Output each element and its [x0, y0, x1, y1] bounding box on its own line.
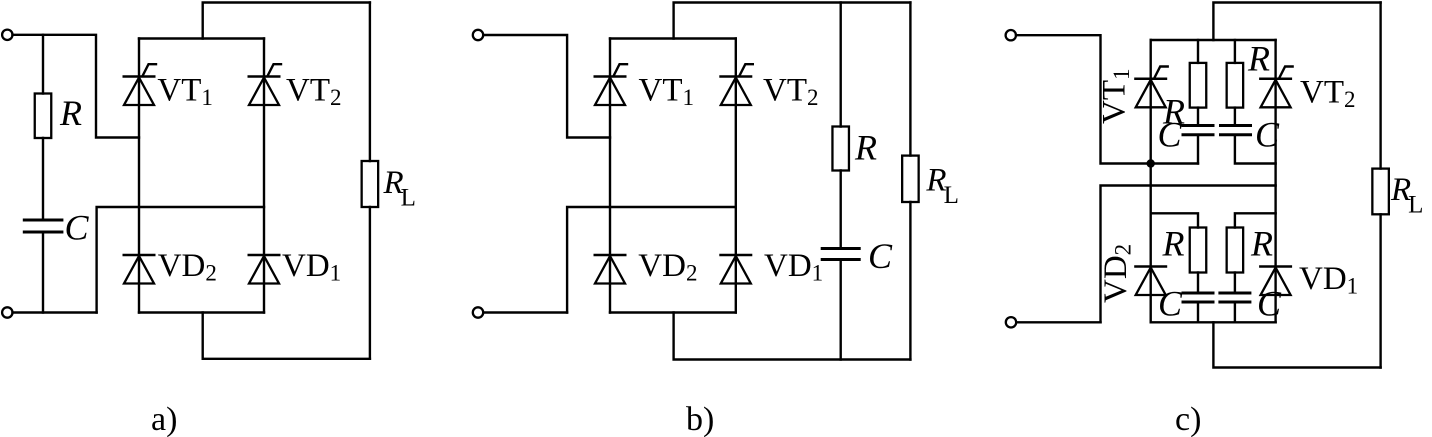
wire bottom output rail c: [1213, 322, 1380, 367]
wire input1 b: [483, 35, 610, 138]
svg-text:VD1: VD1: [1299, 261, 1358, 299]
wire RL top lead b: [909, 3, 911, 156]
wire input2 c bottom: [1016, 321, 1100, 323]
diode VD1 (a) cathode bar: [248, 254, 281, 257]
diode VD2 (a) triangle: [124, 256, 154, 284]
wire C bottom lead b: [840, 260, 842, 360]
wire RL bottom lead c: [1379, 214, 1381, 367]
svg-text:C: C: [1158, 115, 1183, 155]
wire input2 a riser to right branch midpoint: [97, 207, 264, 313]
wire top output rail b: [674, 3, 911, 39]
wire R4-C4 stub c: [1234, 273, 1236, 294]
wire RL top lead a: [369, 3, 371, 162]
wire RL top lead c: [1379, 3, 1381, 169]
diode VD2 (b) triangle: [595, 256, 625, 284]
terminal b-top: [473, 30, 483, 40]
wire input2 c riser to right column: [1101, 186, 1276, 323]
diode VD1 (b) cathode bar: [719, 254, 752, 257]
thyristor VT2 (a) triangle: [249, 78, 279, 106]
diode VD2 (c) triangle: [1136, 268, 1166, 296]
wire bottom box bottom rail c: [1151, 321, 1276, 323]
thyristor VT1 (b) triangle: [595, 78, 625, 106]
thyristor VT1 (a) gate lead: [143, 64, 157, 76]
resistor R (b) body: [832, 127, 849, 171]
wire left column c (VT1/VD2): [1149, 40, 1151, 322]
wire C2 bottom to VT2 anode c: [1235, 135, 1276, 164]
diode VD1 (c) triangle: [1261, 268, 1291, 296]
svg-text:R: R: [1250, 224, 1273, 264]
svg-text:VD2: VD2: [158, 248, 217, 286]
wire top box top rail c: [1151, 39, 1276, 41]
wire snubber1 top stub c: [1197, 40, 1199, 63]
wire R1-C1 stub c: [1197, 108, 1199, 126]
resistor R snubber4 (c) body: [1227, 228, 1244, 273]
wire snubber3 top stub c: [1151, 213, 1198, 227]
wire bridge top rail b: [610, 37, 736, 39]
thyristor VT2 (a) cathode bar: [248, 75, 281, 78]
diode VD2 (a) cathode bar: [123, 254, 156, 257]
capacitor C (b) plates: [821, 249, 861, 260]
svg-text:RL: RL: [925, 163, 958, 210]
wire bottom output rail a: [203, 313, 370, 359]
thyristor VT2 (b) triangle: [721, 78, 751, 106]
wire right column c (VT2/VD1): [1274, 40, 1276, 322]
thyristor VT1 (b) gate lead: [614, 64, 628, 76]
wire left branch b: [609, 39, 611, 313]
capacitor C (a) plates: [23, 220, 64, 232]
svg-text:C: C: [1255, 115, 1280, 155]
wire snubber4 top stub c: [1235, 213, 1276, 227]
diode VD2 (c) cathode bar: [1134, 265, 1167, 268]
junction dot node A: [1147, 159, 1155, 167]
resistor RL (a) body: [362, 161, 379, 207]
wire top output rail a: [203, 3, 370, 39]
wire bottom output rail b: [674, 313, 911, 360]
capacitor C snubber3 (c) plates: [1182, 293, 1215, 302]
svg-text:C: C: [868, 236, 893, 276]
wire R top lead b: [840, 3, 842, 127]
thyristor VT2 (b) gate lead: [739, 64, 753, 76]
thyristor VT1 (c) gate lead: [1154, 67, 1168, 79]
thyristor VT1 (c) triangle: [1136, 80, 1166, 108]
wire bridge bottom rail b: [610, 311, 736, 313]
svg-text:R: R: [59, 93, 82, 133]
svg-text:c): c): [1175, 401, 1201, 437]
wire right branch b: [735, 39, 737, 313]
wire right branch a (VT2/VD1 column): [263, 39, 265, 313]
svg-text:RL: RL: [1390, 172, 1423, 219]
wire C4 bottom stub c: [1234, 302, 1236, 322]
svg-text:b): b): [686, 401, 714, 437]
resistor R snubber2 (c) body: [1227, 63, 1244, 108]
wire R top lead a: [42, 35, 44, 94]
wire snubber2 top stub c: [1234, 40, 1236, 63]
thyristor VT2 (a) gate lead: [268, 64, 282, 76]
wire bridge bottom rail a: [139, 311, 264, 313]
resistor R (a) body: [35, 94, 52, 139]
svg-text:C: C: [1257, 284, 1282, 324]
resistor R snubber3 (c) body: [1190, 228, 1207, 273]
svg-text:VT1: VT1: [1097, 69, 1135, 125]
svg-text:VT1: VT1: [639, 72, 695, 110]
svg-text:R: R: [1162, 224, 1185, 264]
capacitor C snubber1 (c) plates: [1182, 126, 1215, 135]
wire R2-C2 stub c: [1234, 108, 1236, 126]
wire bridge top rail a: [139, 37, 264, 39]
svg-text:VD1: VD1: [764, 248, 823, 286]
wire C bottom lead a: [42, 232, 44, 313]
wire C1 bottom stub c: [1197, 135, 1199, 164]
svg-text:R: R: [1247, 39, 1270, 79]
terminal b-bottom: [473, 307, 483, 317]
thyristor VT2 (c) cathode bar: [1259, 78, 1292, 81]
thyristor VT2 (c) gate lead: [1279, 67, 1293, 79]
diode VD1 (a) triangle: [249, 256, 279, 284]
svg-text:RL: RL: [383, 165, 416, 212]
capacitor C snubber4 (c) plates: [1218, 293, 1251, 302]
wire input2 a bottom: [13, 311, 97, 313]
terminal c-top: [1006, 30, 1016, 40]
diode VD1 (b) triangle: [721, 256, 751, 284]
svg-text:VT2: VT2: [286, 72, 342, 110]
wire input1 c to node A rail: [1016, 35, 1198, 163]
thyristor VT1 (a) triangle: [124, 78, 154, 106]
wire left branch a (VT1/VD2 column): [138, 39, 140, 313]
svg-text:C: C: [1158, 284, 1183, 324]
resistor R snubber1 (c) body: [1190, 63, 1207, 108]
thyristor VT2 (c) triangle: [1261, 80, 1291, 108]
thyristor VT1 (a) cathode bar: [123, 75, 156, 78]
wire top output rail c: [1213, 3, 1380, 41]
svg-text:R: R: [854, 128, 877, 168]
svg-text:VT2: VT2: [1300, 75, 1356, 113]
wire input2 b riser to right branch: [567, 207, 736, 313]
wire C3 bottom stub c: [1197, 302, 1199, 322]
diode VD1 (c) cathode bar: [1259, 265, 1292, 268]
capacitor C snubber2 (c) plates: [1219, 126, 1252, 135]
wire RL bottom lead a: [369, 207, 371, 359]
svg-text:C: C: [65, 208, 90, 248]
diode VD2 (b) cathode bar: [594, 254, 627, 257]
svg-text:VD2: VD2: [1098, 244, 1136, 303]
svg-text:VT1: VT1: [157, 72, 213, 110]
wire RL bottom lead b: [909, 202, 911, 360]
wire input2 b bottom: [483, 311, 567, 313]
thyristor VT1 (b) cathode bar: [594, 75, 627, 78]
wire R3-C3 stub c: [1197, 273, 1199, 294]
wire R to C (a): [42, 138, 44, 220]
svg-text:VT2: VT2: [763, 72, 819, 110]
wire R to C (b): [840, 171, 842, 249]
terminal a-bottom: [2, 307, 12, 317]
svg-text:VD2: VD2: [638, 248, 697, 286]
resistor RL (b) body: [902, 156, 919, 202]
terminal c-bottom: [1006, 317, 1016, 327]
thyristor VT1 (c) cathode bar: [1134, 78, 1167, 81]
thyristor VT2 (b) cathode bar: [719, 75, 752, 78]
resistor RL (c) body: [1372, 169, 1389, 215]
svg-text:a): a): [151, 401, 177, 437]
svg-text:VD1: VD1: [282, 248, 341, 286]
terminal a-top: [2, 30, 12, 40]
wire input1 a: terminal to left branch midpoint: [13, 35, 140, 138]
